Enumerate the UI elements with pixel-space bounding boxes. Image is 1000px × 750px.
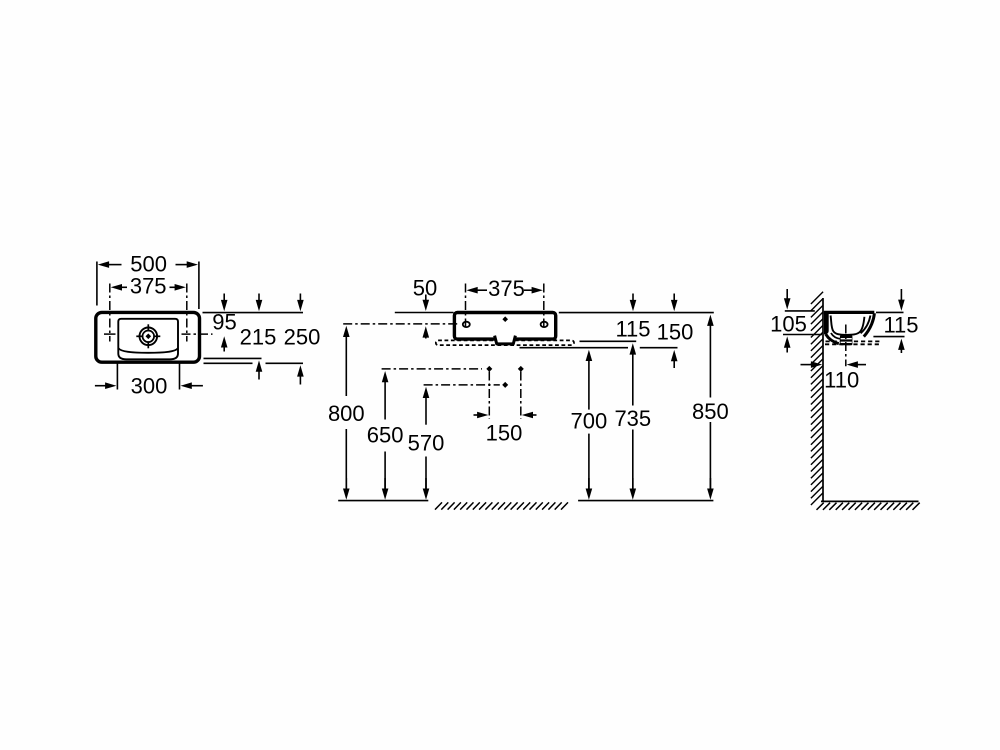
top view: bowl front inner edge (119, 348, 178, 353)
dimension 375: arrows (111, 284, 122, 291)
drain point diamond (502, 382, 508, 388)
side profile: underside outer (826, 334, 839, 344)
svg-text:250: 250 (284, 325, 321, 350)
side profile: drain trap (840, 335, 853, 345)
front view: left fixing hole (463, 322, 470, 327)
svg-text:150: 150 (657, 319, 694, 344)
reference line L1 (580, 340, 637, 342)
svg-text:700: 700 (571, 409, 608, 434)
tap axis dash-dot line (343, 323, 459, 325)
dim 105: bottom reference line (783, 334, 822, 336)
fixing axis dash-dot (650 level) (382, 368, 482, 370)
front view: hidden towel rail dashed bar (436, 340, 574, 345)
side profile: center line (845, 325, 847, 367)
dim 375 front: extension dash-dot lines (465, 284, 467, 328)
dim 150 front: top arrow (671, 300, 678, 311)
dim 105: top reference line (785, 310, 815, 312)
tap hole axis right dash-dot (182, 333, 213, 335)
dim 50: top arrow (423, 300, 430, 311)
svg-text:735: 735 (614, 406, 651, 431)
dim 150 fixing: arrows (477, 412, 488, 419)
front view: drain notch (495, 336, 516, 344)
dim 650: line and arrows (382, 371, 389, 382)
front view: top fixing diamond (502, 316, 508, 322)
top view: basin outer outline (96, 312, 200, 362)
ground hatching (front view) (435, 502, 568, 509)
dim 215: bottom arrow (256, 360, 263, 371)
svg-text:150: 150 (486, 421, 523, 446)
dim 570: line and arrows (423, 387, 430, 398)
drain axis dash-dot (570 level) (424, 384, 500, 386)
svg-text:375: 375 (130, 273, 167, 298)
dimension 500: extension lines (96, 262, 98, 306)
svg-text:300: 300 (131, 374, 168, 399)
svg-text:115: 115 (615, 316, 650, 341)
reference line L2 (520, 347, 629, 349)
dim 700: line and arrows (586, 350, 593, 361)
front view: basin body (454, 313, 555, 340)
side profile: back wall (824, 313, 829, 334)
bowl bottom reference line (204, 357, 262, 359)
ground line left segment (338, 500, 428, 502)
dim 110: arrows (811, 361, 822, 368)
dim 150 front: bottom arrow (671, 350, 678, 361)
basin bottom reference line (204, 362, 253, 364)
svg-text:105: 105 (770, 311, 807, 336)
fixing point diamond left (486, 366, 492, 372)
dim 800: line and arrows (343, 326, 350, 337)
svg-text:115: 115 (883, 312, 918, 337)
dim 105: arrows (784, 298, 791, 309)
svg-text:375: 375 (488, 276, 525, 301)
dim 95: bottom arrow (221, 336, 228, 347)
wall hatching (811, 292, 823, 505)
svg-text:95: 95 (212, 310, 236, 335)
side profile: hidden dashed lines (826, 340, 881, 342)
svg-text:570: 570 (408, 431, 445, 456)
dim 115 side: top reference line (876, 311, 904, 313)
dimension 300: arrows (105, 382, 116, 389)
floor hatching (side view) (817, 503, 920, 510)
front view: right fixing hole (541, 322, 548, 327)
top edge reference line right (203, 312, 304, 314)
fixing point diamond right (518, 366, 524, 372)
dim 215: top arrow (256, 300, 263, 311)
dim 50: top reference line (395, 312, 454, 314)
top view: bowl inner outline (118, 319, 178, 360)
svg-text:650: 650 (367, 423, 404, 448)
dim 115 side: arrows (898, 300, 905, 311)
svg-text:110: 110 (824, 368, 859, 393)
side profile: underside inner (831, 333, 841, 339)
dim 735: line and arrows (630, 343, 637, 354)
svg-text:50: 50 (413, 275, 437, 300)
side profile: front apron outer (864, 313, 875, 336)
ground line right segment (578, 500, 713, 502)
dimension 500: arrows (98, 261, 109, 268)
wall face line (822, 298, 824, 501)
svg-text:850: 850 (692, 399, 729, 424)
fixing verticals dash-dot (488, 372, 490, 420)
svg-text:215: 215 (240, 325, 277, 350)
dim 50: bottom arrow (423, 326, 430, 337)
dim 95: top arrow (221, 300, 228, 311)
dim 250: bottom arrow (297, 365, 304, 376)
side profile: rim top (824, 311, 875, 314)
dim 115 side: bottom reference line (873, 336, 904, 338)
dim 375 front: arrows (466, 287, 477, 294)
side profile: bowl interior (831, 316, 865, 335)
dim 850: line and arrows (707, 315, 714, 326)
dim 250: top arrow (297, 300, 304, 311)
floor line (side view) (821, 500, 919, 502)
top edge reference line right (front) (559, 312, 714, 314)
tap hole axis left cross (104, 333, 116, 335)
dimension 375: extension dash-dot lines (109, 284, 111, 342)
faucet hole symbol (136, 324, 160, 348)
svg-text:800: 800 (328, 401, 365, 426)
dimension 300: extension lines (116, 362, 118, 390)
dim 115 front: top arrow (630, 300, 637, 311)
side profile: front apron inner (861, 316, 871, 334)
